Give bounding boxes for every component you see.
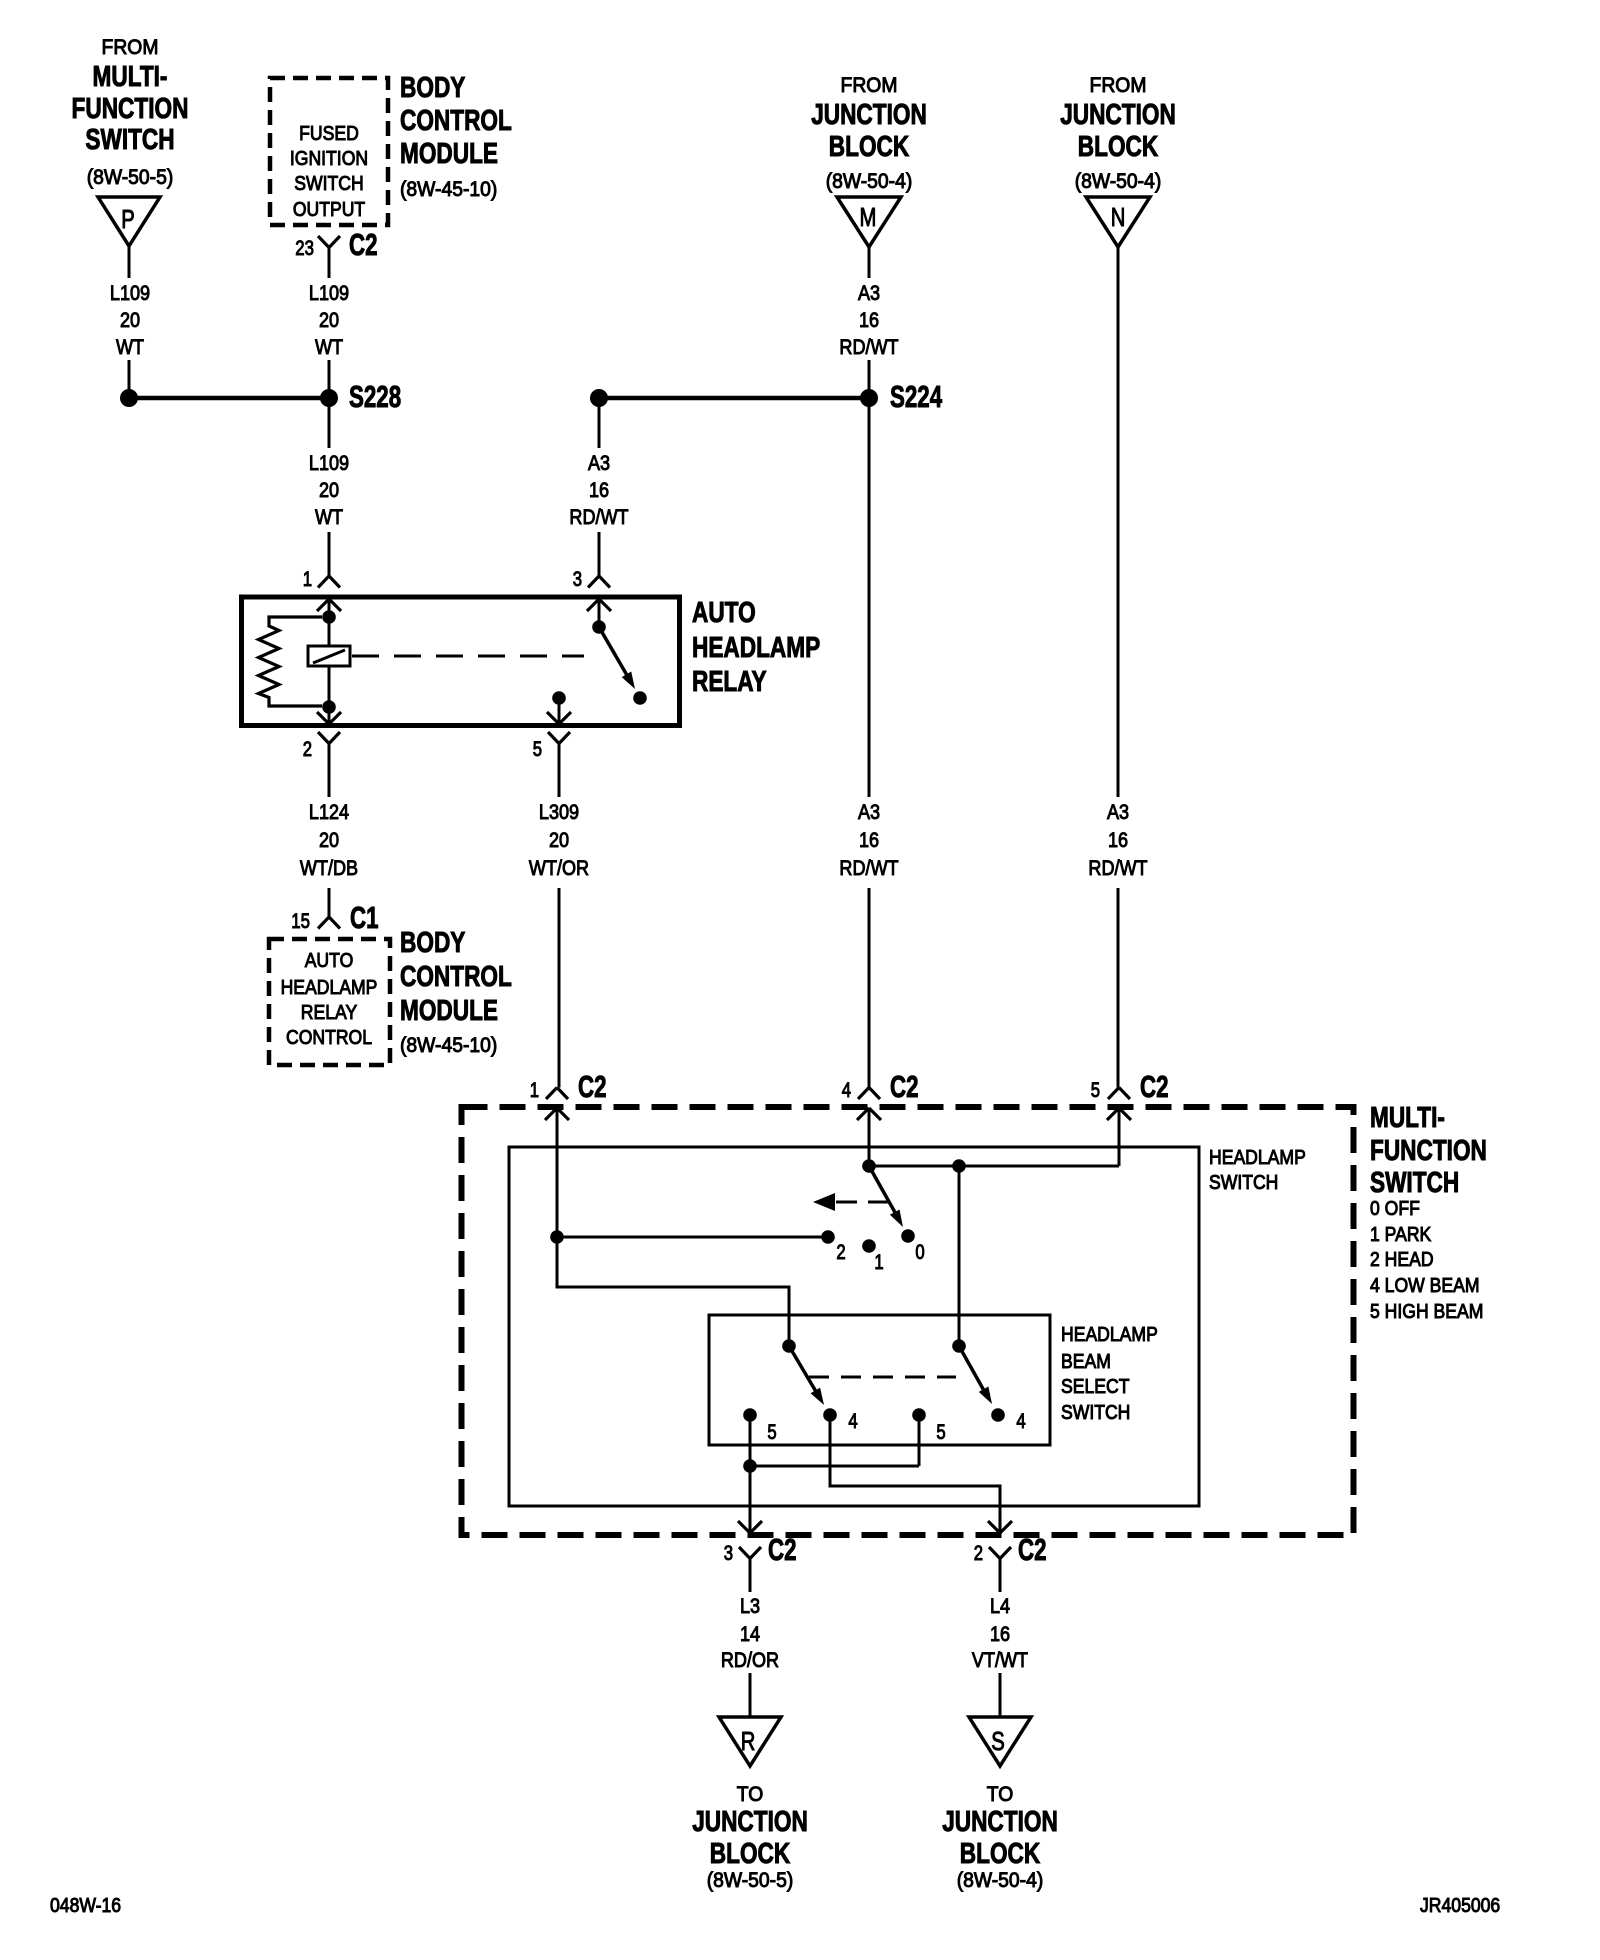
svg-text:16: 16	[859, 828, 879, 852]
relay switch blade	[599, 627, 635, 689]
svg-text:S224: S224	[890, 379, 943, 414]
svg-text:FROM: FROM	[1090, 74, 1147, 97]
relay actuation dashed link	[352, 655, 584, 658]
headlamp switch label	[1209, 1147, 1306, 1194]
svg-text:CONTROL: CONTROL	[400, 105, 512, 137]
connector C2 pin 3 (MFS output)	[724, 1532, 797, 1567]
svg-text:SELECT: SELECT	[1061, 1376, 1130, 1398]
beam select contact 4 (right)	[991, 1408, 1026, 1433]
node S destination label: TO JUNCTION BLOCK (8W-50-4)	[942, 1783, 1058, 1892]
rotary motion arrow	[813, 1193, 890, 1211]
relay pin 2 connector	[303, 707, 341, 761]
junction node to beam select	[952, 1159, 966, 1173]
svg-text:JUNCTION: JUNCTION	[1060, 99, 1176, 131]
svg-text:CONTROL: CONTROL	[286, 1027, 372, 1049]
multi-function switch dashed box	[462, 1107, 1354, 1535]
svg-text:2: 2	[974, 1542, 983, 1565]
node N source label: FROM JUNCTION BLOCK (8W-50-4)	[1060, 74, 1176, 193]
svg-text:BLOCK: BLOCK	[710, 1838, 790, 1870]
svg-text:RD/WT: RD/WT	[839, 335, 898, 359]
connector C2 pin 4 (into MFS)	[842, 1069, 919, 1120]
wire L4 16 VT/WT (C2-2 to S)	[972, 1559, 1028, 1718]
svg-text:(8W-50-4): (8W-50-4)	[826, 170, 913, 193]
svg-text:SWITCH: SWITCH	[294, 173, 363, 195]
connector C1 pin 15 (auto headlamp relay control)	[291, 900, 378, 935]
BCM label: BODY CONTROL MODULE (8W-45-10)	[400, 72, 512, 201]
wire (rotary pivot link to C2-5 wire)	[869, 1165, 1119, 1168]
beam select switch label	[1061, 1324, 1158, 1424]
svg-text:C2: C2	[578, 1069, 607, 1104]
svg-text:A3: A3	[1107, 800, 1129, 824]
wire (junction to MFS C2-3 exit)	[738, 1466, 762, 1533]
svg-text:WT: WT	[315, 335, 343, 359]
svg-text:RELAY: RELAY	[692, 666, 767, 698]
body control module (fused ignition switch output) dashed box	[270, 78, 388, 225]
headlamp beam select switch box	[709, 1315, 1050, 1445]
svg-text:BLOCK: BLOCK	[829, 131, 909, 163]
svg-text:WT/DB: WT/DB	[300, 856, 358, 880]
svg-text:4: 4	[848, 1410, 858, 1433]
svg-text:HEADLAMP: HEADLAMP	[281, 977, 378, 999]
svg-text:1 PARK: 1 PARK	[1370, 1224, 1432, 1246]
wire A3 16 RD/WT (N to MFS C2-5)	[1088, 247, 1147, 1088]
svg-text:BLOCK: BLOCK	[960, 1838, 1040, 1870]
relay K1 box (AUTO HEADLAMP RELAY)	[242, 597, 680, 726]
svg-text:(8W-50-5): (8W-50-5)	[87, 166, 174, 189]
svg-text:3: 3	[573, 568, 582, 591]
svg-text:L3: L3	[740, 1594, 760, 1618]
wire L109 20 WT (P to splice S228)	[110, 246, 150, 390]
svg-text:TO: TO	[737, 1783, 764, 1806]
svg-text:RD/WT: RD/WT	[569, 505, 628, 529]
beam select right blade	[959, 1346, 992, 1404]
svg-text:C2: C2	[1140, 1069, 1169, 1104]
splice S228	[120, 379, 401, 414]
svg-text:BLOCK: BLOCK	[1078, 131, 1158, 163]
relay switch common (pin 3 pivot)	[592, 620, 606, 634]
beam select contact 5 (left)	[743, 1408, 776, 1444]
rotary contact 0	[901, 1229, 924, 1264]
svg-text:S228: S228	[349, 379, 401, 414]
wire L3 14 RD/OR (C2-3 to R)	[721, 1559, 779, 1718]
relay pin 3 connector	[573, 568, 611, 627]
connector C2 pin 2 (MFS output)	[974, 1532, 1047, 1567]
node: relay coil top junction	[322, 610, 336, 624]
beam select ganged dashed link	[809, 1376, 956, 1379]
connector C2 pin 23 (BCM output)	[295, 227, 377, 262]
wire (C2-1 to headlamp switch feed node)	[556, 1108, 559, 1237]
wire L309 20 WT/OR (relay pin 5 to MFS C2-1)	[529, 744, 589, 1088]
svg-text:SWITCH: SWITCH	[1209, 1172, 1278, 1194]
svg-text:C2: C2	[768, 1532, 797, 1567]
beam select right pivot	[952, 1339, 966, 1353]
rotary switch blade	[869, 1166, 903, 1227]
svg-text:MULTI-: MULTI-	[1370, 1102, 1445, 1134]
svg-text:2: 2	[303, 738, 312, 761]
svg-text:L109: L109	[309, 281, 349, 305]
svg-text:HEADLAMP: HEADLAMP	[1061, 1324, 1158, 1346]
svg-text:M: M	[860, 202, 877, 232]
relay pin 1 connector	[303, 568, 341, 617]
node M source label: FROM JUNCTION BLOCK (8W-50-4)	[811, 74, 927, 193]
svg-text:16: 16	[589, 478, 609, 502]
svg-text:JUNCTION: JUNCTION	[811, 99, 927, 131]
svg-text:L124: L124	[309, 800, 349, 824]
svg-text:SWITCH: SWITCH	[85, 124, 174, 156]
svg-text:TO: TO	[987, 1783, 1014, 1806]
beam select contact 5 (right)	[912, 1408, 945, 1444]
svg-text:MODULE: MODULE	[400, 138, 498, 170]
connector M (off-page triangle)	[837, 197, 901, 247]
svg-text:C2: C2	[890, 1069, 919, 1104]
svg-text:14: 14	[740, 1622, 760, 1646]
svg-text:A3: A3	[858, 281, 880, 305]
wire (feed node to contact 2)	[557, 1236, 828, 1239]
svg-text:(8W-45-10): (8W-45-10)	[400, 178, 497, 201]
svg-text:1: 1	[303, 568, 312, 591]
svg-text:20: 20	[319, 308, 339, 332]
body control module (auto headlamp relay control) dashed box	[269, 939, 390, 1065]
connector C2 pin 5 (into MFS)	[1091, 1069, 1169, 1120]
BCM label 2: BODY CONTROL MODULE (8W-45-10)	[400, 927, 512, 1057]
svg-text:5: 5	[936, 1421, 945, 1444]
drawing number JR405006	[1420, 1895, 1500, 1917]
svg-text:4: 4	[1016, 1410, 1026, 1433]
svg-text:AUTO: AUTO	[692, 597, 756, 629]
svg-text:1: 1	[530, 1079, 539, 1102]
relay contact node at pin 5	[552, 691, 566, 705]
wire (feed node to beam select left pivot)	[557, 1237, 789, 1346]
svg-text:R: R	[741, 1726, 756, 1756]
svg-text:SWITCH: SWITCH	[1061, 1402, 1130, 1424]
svg-text:(8W-50-4): (8W-50-4)	[957, 1869, 1044, 1892]
rotary switch pivot	[862, 1159, 876, 1173]
relay pin 5 connector	[533, 698, 571, 761]
beam select left pivot	[782, 1339, 796, 1353]
svg-text:RD/WT: RD/WT	[839, 856, 898, 880]
beam select left blade	[789, 1346, 824, 1405]
connector N (off-page triangle)	[1086, 197, 1150, 247]
svg-text:L109: L109	[110, 281, 150, 305]
svg-text:A3: A3	[588, 451, 610, 475]
svg-text:L309: L309	[539, 800, 579, 824]
node: relay coil bottom junction	[322, 700, 336, 714]
svg-text:23: 23	[295, 237, 314, 260]
svg-text:048W-16: 048W-16	[50, 1895, 121, 1917]
relay K1 label	[692, 597, 820, 698]
svg-text:HEADLAMP: HEADLAMP	[1209, 1147, 1306, 1169]
svg-text:JR405006: JR405006	[1420, 1895, 1500, 1917]
svg-text:4 LOW BEAM: 4 LOW BEAM	[1370, 1275, 1480, 1297]
rotary contact 1	[862, 1239, 883, 1274]
svg-text:16: 16	[859, 308, 879, 332]
svg-text:5: 5	[533, 738, 542, 761]
svg-text:C1: C1	[350, 900, 379, 935]
svg-text:5: 5	[1091, 1079, 1100, 1102]
resistor (relay coil suppression)	[259, 617, 323, 706]
svg-text:FUNCTION: FUNCTION	[72, 93, 189, 125]
relay coil (winding symbol)	[308, 617, 350, 707]
wire A3 16 RD/WT (splice S224 to MFS C2-4)	[839, 406, 898, 1088]
wire (C2-5 down to link)	[1118, 1108, 1121, 1166]
node R destination label: TO JUNCTION BLOCK (8W-50-5)	[692, 1783, 808, 1892]
svg-text:2: 2	[836, 1241, 845, 1264]
svg-text:MODULE: MODULE	[400, 995, 498, 1027]
junction node below contact 5	[743, 1459, 757, 1473]
svg-text:WT/OR: WT/OR	[529, 856, 589, 880]
wire (C2-4 to rotary pivot)	[868, 1108, 871, 1166]
svg-text:WT: WT	[116, 335, 144, 359]
svg-text:5 HIGH BEAM: 5 HIGH BEAM	[1370, 1301, 1483, 1323]
svg-text:SWITCH: SWITCH	[1370, 1167, 1459, 1199]
svg-text:MULTI-: MULTI-	[93, 61, 168, 93]
svg-text:L4: L4	[990, 1594, 1010, 1618]
sheet number 048W-16	[50, 1895, 121, 1917]
svg-text:AUTO: AUTO	[305, 950, 354, 972]
svg-text:3: 3	[724, 1542, 733, 1565]
svg-text:RELAY: RELAY	[301, 1002, 357, 1024]
svg-text:(8W-45-10): (8W-45-10)	[400, 1034, 497, 1057]
headlamp switch box	[509, 1147, 1199, 1506]
connector S (off-page triangle)	[969, 1717, 1031, 1766]
wire (contact 5 left down)	[749, 1415, 752, 1466]
wire A3 16 RD/WT (M to splice S224)	[839, 247, 898, 390]
svg-text:N: N	[1111, 202, 1126, 232]
splice S224	[590, 379, 943, 414]
svg-text:C2: C2	[349, 227, 378, 262]
wire (contact 4 left to MFS C2-2 exit)	[830, 1415, 1012, 1533]
svg-text:FUNCTION: FUNCTION	[1370, 1135, 1487, 1167]
connector R (off-page triangle)	[719, 1717, 781, 1766]
svg-text:0: 0	[915, 1241, 924, 1264]
svg-text:WT: WT	[315, 505, 343, 529]
svg-text:(8W-50-4): (8W-50-4)	[1075, 170, 1162, 193]
svg-text:VT/WT: VT/WT	[972, 1648, 1028, 1672]
node P source label: FROM MULTI-FUNCTION SWITCH (8W-50-5)	[72, 36, 189, 189]
svg-text:IGNITION: IGNITION	[290, 148, 368, 170]
svg-text:16: 16	[1108, 828, 1128, 852]
svg-text:5: 5	[767, 1421, 776, 1444]
svg-text:FROM: FROM	[102, 36, 159, 59]
wire (contact 5 right to junction)	[750, 1415, 919, 1466]
junction node on pin-1 feed	[550, 1230, 564, 1244]
wire L109 20 WT (BCM C2-23 to splice S228)	[309, 248, 349, 391]
wire L109 20 WT (splice S228 to relay pin 1)	[309, 406, 349, 576]
svg-text:15: 15	[291, 910, 310, 933]
svg-text:JUNCTION: JUNCTION	[942, 1806, 1058, 1838]
wire A3 (splice S224 to relay pin 3 branch)	[569, 406, 628, 576]
svg-text:20: 20	[319, 828, 339, 852]
svg-text:20: 20	[549, 828, 569, 852]
svg-text:20: 20	[319, 478, 339, 502]
svg-text:OUTPUT: OUTPUT	[293, 199, 365, 221]
svg-text:RD/WT: RD/WT	[1088, 856, 1147, 880]
relay switch contact (to pin 5)	[633, 691, 647, 705]
wire (junction node to beam select right pivot)	[958, 1166, 961, 1346]
multi-function switch label and positions	[1370, 1102, 1487, 1323]
rotary contact 2	[821, 1230, 845, 1264]
svg-text:CONTROL: CONTROL	[400, 961, 512, 993]
svg-text:L109: L109	[309, 451, 349, 475]
svg-text:FUSED: FUSED	[299, 123, 359, 145]
svg-text:2 HEAD: 2 HEAD	[1370, 1249, 1434, 1271]
svg-text:A3: A3	[858, 800, 880, 824]
beam select contact 4 (left)	[823, 1408, 858, 1433]
svg-text:0 OFF: 0 OFF	[1370, 1198, 1420, 1220]
connector P (off-page triangle)	[98, 197, 160, 246]
svg-text:S: S	[991, 1726, 1005, 1756]
svg-text:HEADLAMP: HEADLAMP	[692, 632, 820, 664]
svg-text:(8W-50-5): (8W-50-5)	[707, 1869, 794, 1892]
svg-text:FROM: FROM	[841, 74, 898, 97]
svg-text:BEAM: BEAM	[1061, 1351, 1111, 1373]
svg-text:BODY: BODY	[400, 72, 465, 104]
svg-text:RD/OR: RD/OR	[721, 1648, 779, 1672]
wire L124 20 WT/DB (relay pin 2 to BCM C1-15)	[300, 744, 358, 918]
svg-text:1: 1	[874, 1251, 883, 1274]
svg-text:BODY: BODY	[400, 927, 465, 959]
svg-text:JUNCTION: JUNCTION	[692, 1806, 808, 1838]
svg-text:P: P	[121, 204, 135, 234]
svg-text:20: 20	[120, 308, 140, 332]
svg-text:4: 4	[842, 1079, 852, 1102]
svg-text:16: 16	[990, 1622, 1010, 1646]
svg-text:C2: C2	[1018, 1532, 1047, 1567]
connector C2 pin 1 (into MFS)	[530, 1069, 607, 1120]
